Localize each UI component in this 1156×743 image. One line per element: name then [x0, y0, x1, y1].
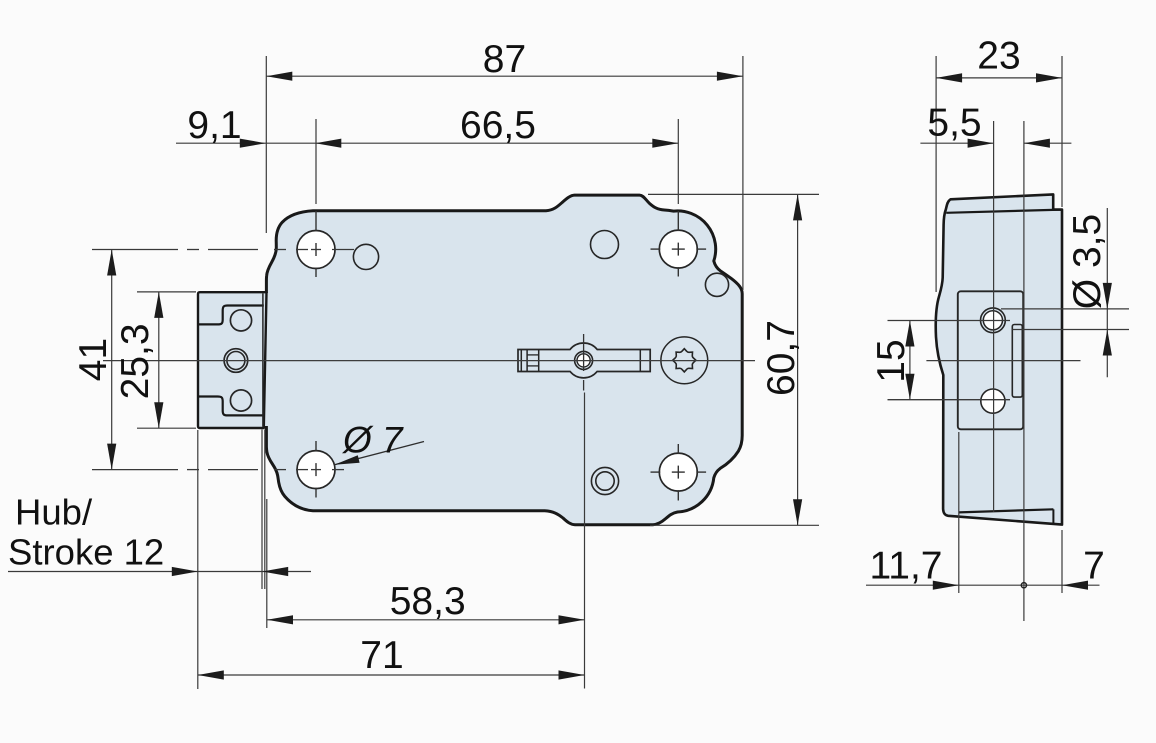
- bolt bracket fill patch under body edge: [261, 293, 269, 426]
- dim 23 extension right: [1061, 56, 1063, 207]
- svg-text:23: 23: [977, 35, 1020, 78]
- extension bolt face extended: [197, 430, 199, 689]
- dim 5,5 extension mid (hole axis): [993, 121, 995, 512]
- extension body left edge lower: [265, 430, 267, 629]
- dim 66,5 extension left: [315, 119, 317, 204]
- dim 25,3 label: [114, 323, 157, 399]
- mounting hole O7 bottom-right: [651, 453, 707, 491]
- dim 15 label: [870, 339, 913, 382]
- slot bar with centre boss: [518, 343, 650, 378]
- mounting hole O7 top-left: [297, 231, 335, 269]
- dim Ø3,5 label: [1066, 214, 1109, 309]
- slot left cap tick 1: [520, 350, 522, 372]
- dim 9,1 label: [187, 104, 241, 147]
- side view back plate bottom edge: [959, 509, 1054, 512]
- strike plate rectangle: [958, 291, 1023, 429]
- mounting hole O7 top-right: [651, 230, 707, 268]
- dim 9,1 / 66,5 line: [176, 139, 678, 148]
- dim 41 label: [72, 338, 115, 381]
- dim 60,7 line: [793, 194, 802, 525]
- dim 71 line: [198, 670, 585, 679]
- dim 5,5 line: [920, 139, 1071, 148]
- label Stroke 12: [8, 532, 164, 573]
- dim 25,3 line: [154, 292, 163, 428]
- dim 23 line: [936, 73, 1062, 82]
- hole crosshair vertical bottom-right: [677, 444, 679, 501]
- dim stroke line: [8, 567, 311, 576]
- dim 5,5 label: [927, 102, 981, 145]
- hole crosshair vertical top-left: [315, 211, 317, 277]
- boss ring outer: [575, 351, 593, 369]
- bolt plate top step edge: [198, 306, 263, 325]
- svg-text:11,7: 11,7: [869, 545, 942, 588]
- small circle right side: [705, 273, 728, 296]
- dim 41 extension top / hole centreline: [92, 249, 354, 251]
- dim 25,3 extension top: [137, 291, 196, 293]
- bracket middle ring outer: [224, 349, 248, 373]
- slot right cap tick: [639, 350, 641, 372]
- hole crosshair vertical top-right: [677, 211, 679, 277]
- torx screw star recess: [673, 349, 696, 372]
- dim 41 line: [107, 250, 116, 470]
- main horizontal centreline front view: [103, 360, 755, 362]
- svg-text:5,5: 5,5: [927, 102, 981, 145]
- bracket hole upper: [230, 310, 251, 331]
- svg-text:Ø 3,5: Ø 3,5: [1066, 214, 1109, 309]
- side hole upper inner: [983, 311, 1002, 330]
- dim 11,7 / 7 line: [866, 581, 1100, 590]
- svg-text:7: 7: [1083, 545, 1105, 588]
- boss crosshair vertical: [583, 334, 585, 391]
- svg-text:41: 41: [72, 338, 115, 381]
- slot left knurl tick: [527, 350, 539, 372]
- side hole lower: [981, 389, 1005, 413]
- datum dot on dimension line: [1021, 583, 1026, 588]
- dim 7 label: [1083, 545, 1105, 588]
- dim 66,5 label: [460, 104, 536, 147]
- dim 87 extension line left: [265, 56, 267, 233]
- side hole upper outer: [981, 308, 1006, 333]
- dim Ø3,5 extension upper: [1001, 308, 1129, 310]
- dim 60,7 extension bottom: [650, 524, 819, 526]
- svg-text:66,5: 66,5: [460, 104, 536, 147]
- svg-text:60,7: 60,7: [760, 320, 803, 396]
- extension strike plate face: [958, 432, 960, 593]
- boss ring inner: [577, 354, 590, 367]
- dim 25,3 extension bottom: [137, 427, 196, 429]
- ringed hole bottom middle inner: [596, 472, 614, 490]
- dim 87 extension line right: [742, 56, 744, 290]
- dim 60,7 extension top: [648, 193, 819, 195]
- mounting hole O7 bottom-left: [297, 451, 335, 489]
- label Ø7: [341, 420, 404, 461]
- svg-text:58,3: 58,3: [390, 580, 466, 623]
- dim 87 line: [266, 72, 743, 81]
- extension flange right lower: [1061, 530, 1063, 593]
- dim 41 extension bottom / hole centreline: [92, 469, 344, 471]
- side view cover top edge: [946, 210, 1062, 213]
- svg-text:71: 71: [360, 634, 403, 677]
- dim 23 label: [977, 35, 1020, 78]
- dim 15 line: [905, 321, 914, 400]
- svg-text:25,3: 25,3: [114, 323, 157, 399]
- extension bolt face retracted: [261, 430, 263, 590]
- leader line Ø7: [334, 442, 424, 465]
- dim 5,5 extension right (bolt face): [1023, 121, 1025, 621]
- side view back plate bottom right corner: [1052, 509, 1054, 524]
- dim 58,3 line: [267, 615, 585, 624]
- slot left cap tick 2: [526, 350, 528, 372]
- bolt plate bottom step edge: [198, 397, 263, 416]
- dim 71 label: [360, 634, 403, 677]
- svg-text:Hub/: Hub/: [15, 492, 93, 533]
- bracket middle ring inner: [227, 352, 245, 370]
- svg-text:87: 87: [483, 38, 526, 81]
- svg-text:15: 15: [870, 339, 913, 382]
- vertical centreline through boss: [584, 393, 586, 689]
- svg-text:Ø 7: Ø 7: [341, 420, 404, 461]
- bolt bracket outline: [198, 292, 267, 428]
- label Hub/: [15, 492, 93, 533]
- small circle near top-left hole: [353, 244, 378, 269]
- svg-text:Stroke 12: Stroke 12: [8, 532, 164, 573]
- hole crosshair vertical bottom-left: [315, 441, 317, 498]
- torx screw outer circle: [661, 337, 708, 384]
- dim 66,5 extension right: [677, 119, 679, 204]
- dim 58,3 label: [390, 580, 466, 623]
- lock case front view body plate: [266, 195, 742, 525]
- main centreline side view: [926, 360, 1080, 362]
- dim 87 label: [483, 38, 526, 81]
- ringed hole bottom middle outer: [591, 467, 618, 494]
- side hole upper crosshair: [888, 320, 1011, 322]
- dim 11,7 label: [869, 545, 942, 588]
- bolt side-view rectangle: [1012, 325, 1022, 398]
- dim 60,7 label: [760, 320, 803, 396]
- plain circle top middle: [591, 231, 619, 259]
- bracket hole lower: [230, 390, 251, 411]
- dim Ø3,5 line: [1103, 208, 1112, 377]
- svg-text:9,1: 9,1: [187, 104, 241, 147]
- dim Ø3,5 extension lower: [1013, 329, 1130, 331]
- dim 23 extension left: [935, 56, 937, 292]
- bolt bracket right edge line: [262, 294, 264, 427]
- side view body silhouette: [936, 194, 1062, 524]
- side hole lower crosshair: [888, 399, 1011, 401]
